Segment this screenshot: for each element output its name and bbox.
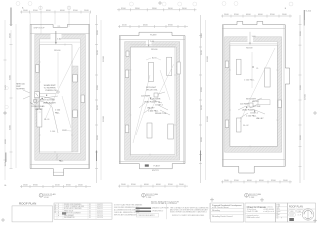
svg-text:1:100 FALL: 1:100 FALL	[244, 79, 255, 82]
svg-text:B: B	[58, 213, 59, 215]
svg-text:05.01.21: 05.01.21	[97, 213, 103, 215]
svg-text:F: F	[281, 218, 282, 220]
svg-text:WORKS TO COMPLY WITH BUILDING: WORKS TO COMPLY WITH BUILDING REGS	[172, 215, 204, 217]
svg-text:OVERFLOW: OVERFLOW	[45, 90, 57, 92]
svg-text:FIRST ISSUE: FIRST ISSUE	[64, 210, 73, 212]
svg-text:CODE 4: CODE 4	[250, 112, 258, 114]
svg-text:VELUX GGL: VELUX GGL	[146, 90, 158, 92]
svg-text:at 24 Church Street: at 24 Church Street	[212, 206, 229, 209]
svg-text:21.01.21: 21.01.21	[97, 210, 103, 212]
svg-text:12600: 12600	[103, 55, 105, 62]
svg-text:ROOF PLAN: ROOF PLAN	[249, 193, 262, 196]
svg-text:10.02.21: 10.02.21	[97, 204, 103, 206]
svg-text:GRP ROOF: GRP ROOF	[34, 28, 46, 30]
svg-text:RIDGE TILE: RIDGE TILE	[155, 113, 167, 115]
svg-text:1:100: 1:100	[276, 206, 280, 208]
svg-text:RIDGE: RIDGE	[246, 48, 253, 50]
svg-text:F: F	[58, 204, 59, 206]
svg-text:02.02.21: 02.02.21	[97, 206, 103, 208]
svg-text:1:100: 1:100	[249, 197, 255, 199]
svg-text:1:100 FALL: 1:100 FALL	[148, 110, 159, 113]
svg-text:S-104: S-104	[290, 214, 294, 216]
svg-text:100 RWP: 100 RWP	[141, 96, 150, 98]
svg-text:12600: 12600	[305, 93, 307, 100]
svg-text:ROOF PLAN: ROOF PLAN	[44, 193, 57, 196]
svg-text:VALLEY: VALLEY	[147, 107, 155, 110]
svg-text:RIDGE: RIDGE	[54, 50, 61, 52]
svg-text:USE FIGURED DIMENSIONS ONLY: USE FIGURED DIMENSIONS ONLY	[114, 207, 139, 209]
svg-text:EXIST GUTTER: EXIST GUTTER	[40, 100, 55, 102]
svg-text:VALLEY: VALLEY	[35, 108, 43, 111]
svg-text:LEAD FLASH: LEAD FLASH	[144, 101, 157, 104]
svg-text:ENTRY: ENTRY	[152, 170, 160, 172]
svg-text:ROOF DETAILS + FIXINGS: ROOF DETAILS + FIXINGS	[151, 202, 177, 205]
svg-text:RWP: RWP	[62, 130, 67, 132]
svg-text:Wheatley Parish Council: Wheatley Parish Council	[212, 215, 233, 218]
svg-text:12600: 12600	[207, 115, 209, 122]
svg-text:JD: JD	[276, 212, 278, 214]
svg-text:1:100 FALL: 1:100 FALL	[246, 114, 257, 117]
svg-text:100 RWP: 100 RWP	[240, 103, 249, 105]
svg-text:12600: 12600	[103, 115, 105, 122]
svg-text:rev: rev	[276, 218, 278, 220]
svg-text:28.01.21: 28.01.21	[97, 208, 103, 210]
svg-text:Wheatley: Wheatley	[212, 209, 220, 212]
svg-text:FALL: FALL	[59, 160, 63, 163]
svg-text:LEAD FLASH: LEAD FLASH	[43, 102, 56, 105]
svg-text:1:100: 1:100	[290, 211, 294, 213]
svg-text:ROOF PLAN: ROOF PLAN	[146, 193, 159, 196]
svg-text:S-104: S-104	[306, 11, 312, 13]
svg-text:02.21: 02.21	[276, 209, 280, 211]
svg-text:CODE 4 LEAD: CODE 4 LEAD	[31, 105, 45, 108]
svg-text:18.12.20: 18.12.20	[97, 215, 103, 217]
svg-text:1:100: 1:100	[146, 197, 152, 199]
svg-text:E: E	[58, 206, 59, 208]
svg-text:VALLEY: VALLEY	[256, 117, 264, 120]
svg-text:REVISIONS: REVISIONS	[55, 204, 57, 213]
svg-text:RIDGE: RIDGE	[151, 49, 158, 51]
svg-text:RC: RC	[276, 216, 278, 218]
svg-text:1:100: 1:100	[44, 197, 50, 199]
svg-text:1:100: 1:100	[55, 110, 61, 112]
svg-text:LEAD FLASH: LEAD FLASH	[242, 109, 255, 112]
svg-text:1:100: 1:100	[50, 131, 56, 133]
svg-text:PLANT: PLANT	[153, 165, 160, 168]
svg-text:HOPPER: HOPPER	[16, 89, 25, 91]
svg-text:e: info@cc.co.uk: e: info@cc.co.uk	[263, 211, 274, 213]
svg-text:SL-02: SL-02	[243, 125, 249, 127]
svg-text:10.12.20: 10.12.20	[97, 217, 103, 219]
svg-text:PLANT: PLANT	[150, 33, 157, 36]
svg-text:ROOF PLAN: ROOF PLAN	[289, 206, 303, 209]
svg-text:SL-01: SL-01	[44, 119, 50, 121]
svg-text:Cheel & Chassie: Cheel & Chassie	[247, 205, 267, 209]
svg-text:ROOF PLAN: ROOF PLAN	[19, 201, 36, 205]
svg-text:12600: 12600	[207, 55, 209, 62]
